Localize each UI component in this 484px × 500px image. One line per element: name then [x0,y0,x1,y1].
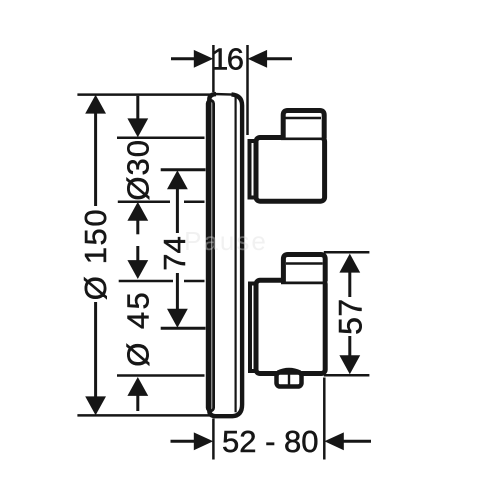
dimension 57 bottom arrow [339,355,360,374]
extension line F plate bottom [77,414,210,417]
escutcheon plate back rim [207,100,213,411]
dimension O150 bottom arrow [85,396,106,415]
dimension 57 line upper [348,270,351,297]
dimension 74 line lower [176,273,179,310]
dimension 74 line upper [176,187,179,233]
dimension 16 left line [171,57,196,60]
lower handle cap [283,255,325,282]
vertical extension line 52-80 left [212,419,215,460]
svg-text:52 - 80: 52 - 80 [222,424,319,459]
vertical extension line 16-right [246,45,249,135]
safety stop tab divider [288,375,290,385]
dimension O150 line lower [94,302,97,399]
extension line E lower body bottom [117,374,205,377]
upper handle cap [283,111,324,139]
svg-text:Pause: Pause [184,226,268,256]
extension line C upper body bottom (right part) [184,201,205,204]
extension line D lower body top (right part) [184,280,205,283]
dimension 52-80 left line [171,440,197,443]
dimension O45 bottom arrow [127,377,148,396]
escutcheon plate front face edge line [235,96,237,413]
escutcheon plate dome top edge [214,93,234,96]
dimension 74 top arrow [167,170,188,189]
escutcheon plate dome outline sides and bottom [209,94,242,416]
dimension 16 left arrow [194,50,213,68]
escutcheon plate dome fill [209,94,242,416]
dimension O45 top arrow [127,260,148,279]
dimension 57 top arrow [339,254,360,273]
svg-text:16: 16 [211,41,243,76]
svg-text:Ø30: Ø30 [120,139,155,201]
dimension O45 stub above [136,246,139,262]
lower handle sleeve [250,284,259,372]
vertical extension line 16-left top [212,45,215,92]
svg-text:57: 57 [332,298,368,335]
dimension 16 right line [265,57,292,60]
dimension 52-80 left arrow [194,432,213,450]
extension line A plate top [77,93,214,96]
lower handle centerline [161,327,206,330]
vertical extension line 52-80 right [323,378,326,460]
dimension 57 line lower [348,336,351,358]
upper handle centerline [161,168,206,171]
upper handle cap bottom line [281,138,324,141]
extension line 57 bottom [324,374,370,377]
dimension O30 stub below [136,219,139,234]
lower handle cap groove [286,262,323,264]
dimension 52-80 right arrow [324,432,343,450]
extension line 57 top [324,251,370,254]
dimension O30 bottom arrow [127,202,148,221]
extension line C upper body bottom (left part) [118,201,170,204]
safety stop bump [278,369,301,372]
dimension O45 stub below [136,394,139,411]
dimension O150 top arrow [85,95,106,114]
extension line B upper body top [117,136,205,139]
dimension 74 bottom arrow [167,309,188,328]
dimension 16 right arrow [248,50,267,68]
upper handle cap groove [286,117,322,119]
upper handle body [256,138,325,202]
lower handle cap bottom line [281,282,326,285]
upper handle sleeve [250,141,259,198]
lower handle body [256,280,325,373]
svg-text:Ø 150: Ø 150 [78,208,113,300]
safety stop tab [277,373,302,387]
dimension O30 leader from line A [136,96,139,120]
svg-text:Ø 45: Ø 45 [120,290,155,367]
dimension O30 top arrow [127,118,148,137]
dimension 52-80 right line [342,440,371,443]
dimension O150 line upper [94,111,97,206]
extension line D lower body top (left part) [119,280,173,283]
